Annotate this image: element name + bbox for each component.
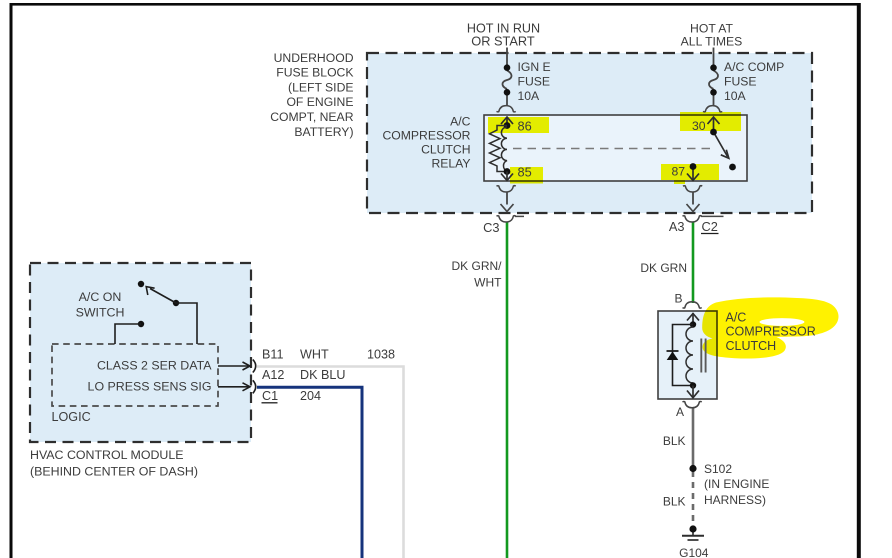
- svg-text:G104: G104: [679, 546, 709, 558]
- svg-text:OF ENGINE: OF ENGINE: [286, 95, 353, 109]
- svg-text:UNDERHOOD: UNDERHOOD: [274, 51, 354, 65]
- svg-text:RELAY: RELAY: [431, 156, 470, 170]
- svg-text:A/C: A/C: [450, 115, 471, 129]
- svg-text:FUSE: FUSE: [518, 74, 551, 88]
- svg-text:LO PRESS SENS SIG: LO PRESS SENS SIG: [88, 379, 212, 393]
- svg-text:(LEFT SIDE: (LEFT SIDE: [288, 80, 353, 94]
- svg-text:(BEHIND CENTER OF DASH): (BEHIND CENTER OF DASH): [30, 465, 198, 479]
- svg-text:A/C: A/C: [726, 311, 747, 325]
- svg-text:B11: B11: [262, 348, 283, 362]
- svg-text:COMPRESSOR: COMPRESSOR: [382, 129, 470, 143]
- svg-text:S102: S102: [704, 462, 732, 476]
- svg-text:86: 86: [518, 118, 532, 133]
- svg-text:A: A: [676, 405, 684, 419]
- svg-text:BLK: BLK: [663, 434, 686, 448]
- svg-text:FUSE: FUSE: [724, 74, 757, 88]
- svg-text:A12: A12: [262, 368, 284, 382]
- svg-text:A/C ON: A/C ON: [79, 290, 122, 304]
- svg-text:CLUTCH: CLUTCH: [726, 339, 777, 353]
- svg-text:10A: 10A: [724, 89, 747, 103]
- svg-text:C2: C2: [702, 219, 718, 234]
- svg-text:COMPT, NEAR: COMPT, NEAR: [270, 110, 353, 124]
- svg-text:30: 30: [692, 119, 706, 133]
- svg-text:LOGIC: LOGIC: [52, 410, 91, 424]
- svg-text:B: B: [674, 292, 682, 306]
- svg-text:10A: 10A: [518, 89, 541, 103]
- svg-text:SWITCH: SWITCH: [76, 306, 125, 320]
- svg-text:ALL TIMES: ALL TIMES: [681, 34, 743, 48]
- svg-text:DK BLU: DK BLU: [300, 368, 346, 382]
- svg-text:87: 87: [671, 164, 685, 178]
- svg-text:CLASS 2 SER DATA: CLASS 2 SER DATA: [97, 359, 212, 373]
- svg-text:BLK: BLK: [663, 495, 686, 509]
- svg-text:WHT: WHT: [474, 275, 502, 289]
- svg-text:BATTERY): BATTERY): [294, 125, 353, 139]
- svg-text:HARNESS): HARNESS): [704, 493, 766, 507]
- svg-text:HVAC CONTROL MODULE: HVAC CONTROL MODULE: [30, 448, 184, 462]
- svg-text:WHT: WHT: [300, 348, 329, 362]
- svg-text:IGN E: IGN E: [518, 60, 551, 74]
- svg-text:DK GRN/: DK GRN/: [451, 259, 502, 273]
- svg-text:OR START: OR START: [471, 33, 535, 48]
- svg-text:DK GRN: DK GRN: [640, 261, 687, 275]
- svg-text:COMPRESSOR: COMPRESSOR: [726, 325, 816, 339]
- svg-text:CLUTCH: CLUTCH: [421, 142, 470, 156]
- svg-text:C1: C1: [262, 389, 278, 403]
- svg-text:(IN ENGINE: (IN ENGINE: [704, 477, 769, 491]
- svg-text:FUSE BLOCK: FUSE BLOCK: [276, 66, 353, 80]
- svg-text:C3: C3: [483, 220, 499, 235]
- svg-text:85: 85: [518, 164, 532, 179]
- svg-text:204: 204: [300, 389, 321, 403]
- svg-text:A3: A3: [669, 219, 685, 234]
- svg-text:1038: 1038: [367, 348, 395, 362]
- svg-text:A/C COMP: A/C COMP: [724, 60, 784, 74]
